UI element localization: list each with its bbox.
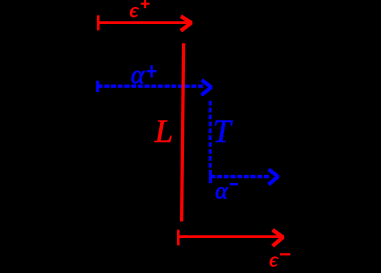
svg-text:α: α bbox=[131, 60, 146, 89]
wire: T vertical dashed segment bbox=[209, 101, 212, 171]
svg-text:α: α bbox=[215, 179, 228, 205]
svg-text:T: T bbox=[213, 114, 233, 150]
wire: epsilon-plus segment (top red arrow) bbox=[98, 15, 191, 30]
svg-text:ϵ: ϵ bbox=[269, 250, 278, 272]
label epsilon-minus bbox=[269, 250, 290, 272]
label epsilon-plus bbox=[130, 0, 150, 22]
label alpha-minus bbox=[215, 179, 238, 205]
wire: vertical red line L bbox=[182, 43, 184, 221]
svg-text:L: L bbox=[154, 114, 173, 150]
wire: epsilon-minus segment (bottom red arrow) bbox=[178, 230, 283, 246]
wire: alpha-plus dashed segment (upper blue arrow) bbox=[98, 80, 212, 95]
label alpha-plus bbox=[131, 60, 157, 89]
wire: alpha-minus dashed segment (lower blue arrow) bbox=[210, 169, 278, 184]
